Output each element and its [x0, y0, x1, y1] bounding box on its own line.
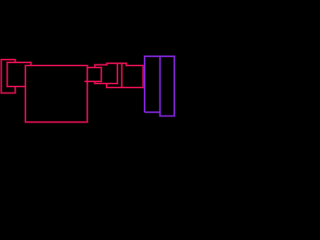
red inner step and mid horizontal with pin up: [95, 63, 118, 83]
small red block A right of big block: [85, 68, 102, 82]
red staircase outline package notch: [95, 63, 143, 87]
outer-left red block outline: [1, 60, 15, 93]
red pin vertical: [121, 63, 124, 87]
inner-left red block outline: [7, 62, 31, 86]
big central red block outline: [25, 66, 87, 123]
blue block pair outline: [145, 56, 175, 116]
blue left block bottom edge: [145, 111, 160, 114]
